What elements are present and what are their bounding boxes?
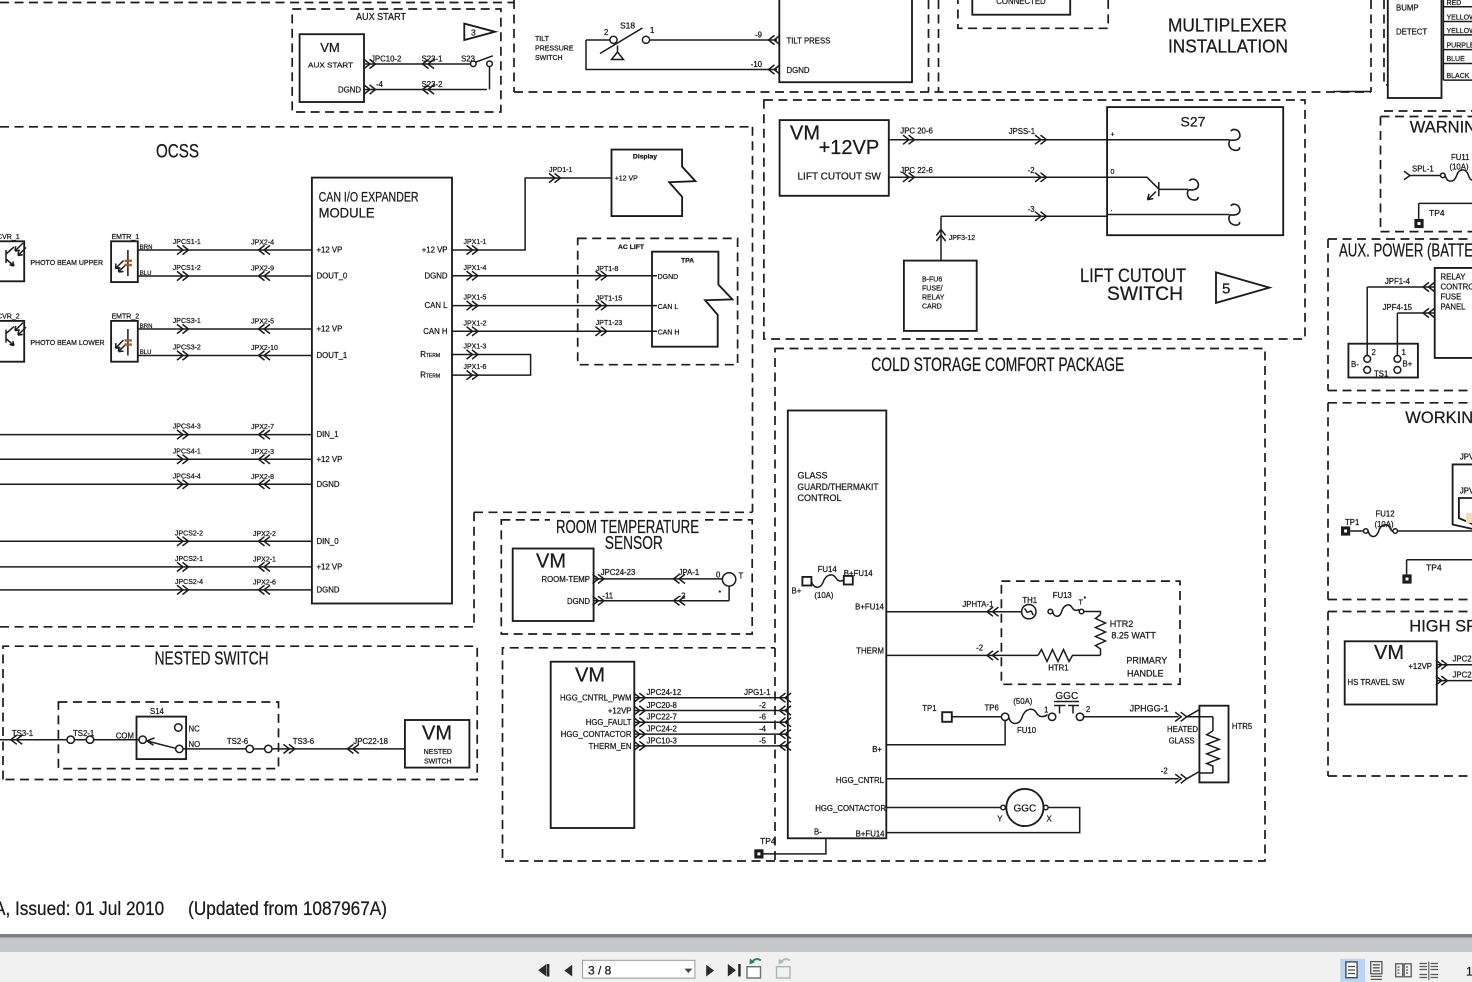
svg-text:JPC24-12: JPC24-12 [647, 688, 682, 697]
svg-text:JPX2-9: JPX2-9 [251, 266, 274, 273]
svg-text:JPCS4-1: JPCS4-1 [173, 448, 201, 455]
svg-text:JPC20-8: JPC20-8 [647, 701, 677, 710]
svg-text:-4: -4 [759, 725, 767, 734]
svg-text:0: 0 [716, 571, 721, 580]
svg-text:WARNING: WARNING [1410, 119, 1472, 137]
svg-text:TS3-1: TS3-1 [12, 729, 33, 738]
svg-text:JPCS4-4: JPCS4-4 [173, 473, 201, 480]
svg-text:+12 VP: +12 VP [317, 455, 343, 464]
svg-text:TP4: TP4 [1429, 208, 1445, 218]
svg-text:HANDLE: HANDLE [1127, 669, 1164, 679]
svg-text:BLU: BLU [140, 271, 152, 277]
svg-text:DGND: DGND [338, 86, 361, 95]
svg-text:JPG1-1: JPG1-1 [744, 688, 770, 697]
svg-text:LIFT CUTOUT SW: LIFT CUTOUT SW [798, 172, 882, 183]
svg-text:SENSOR: SENSOR [605, 533, 663, 553]
svg-text:JPX1-3: JPX1-3 [464, 344, 487, 351]
svg-text:CAN L: CAN L [425, 301, 449, 310]
svg-text:JPT1-8: JPT1-8 [596, 266, 619, 273]
svg-text:CONNECTED: CONNECTED [996, 0, 1046, 6]
svg-text:B+: B+ [792, 587, 802, 596]
svg-text:EMTR_2: EMTR_2 [112, 314, 140, 321]
svg-text:RCVR_1: RCVR_1 [0, 234, 20, 241]
svg-text:JPX1-5: JPX1-5 [464, 295, 487, 302]
svg-text:COM: COM [116, 732, 134, 741]
svg-text:3: 3 [471, 28, 476, 38]
svg-text:MULTIPLEXER: MULTIPLEXER [1168, 16, 1287, 36]
svg-text:HTR1: HTR1 [1048, 664, 1068, 673]
svg-text:0: 0 [1111, 169, 1115, 176]
svg-text:S23-2: S23-2 [422, 80, 443, 89]
svg-text:JPX2-1: JPX2-1 [253, 556, 276, 563]
svg-text:TP4: TP4 [1426, 563, 1442, 573]
svg-text:Y: Y [997, 815, 1003, 824]
svg-text:JPC2: JPC2 [1453, 655, 1472, 664]
svg-text:-2: -2 [679, 591, 686, 600]
svg-text:TP4: TP4 [760, 836, 776, 846]
svg-text:DGND: DGND [787, 66, 810, 75]
svg-text:JPV: JPV [1460, 453, 1472, 462]
svg-text:+12 VP: +12 VP [317, 325, 343, 334]
svg-text:3 / 8: 3 / 8 [588, 964, 612, 978]
svg-text:PURPLE: PURPLE [1447, 43, 1472, 50]
svg-text:JPSS-1: JPSS-1 [1009, 127, 1035, 136]
svg-text:VM: VM [422, 723, 452, 745]
svg-text:JPX2-5: JPX2-5 [251, 319, 274, 326]
svg-text:JPC10-3: JPC10-3 [647, 736, 677, 745]
svg-text:FU14: FU14 [818, 565, 838, 574]
svg-text:JPCS2-1: JPCS2-1 [175, 556, 203, 563]
svg-text:+12 VP: +12 VP [317, 246, 343, 255]
svg-text:JPX2-8: JPX2-8 [251, 474, 274, 481]
svg-text:B+FU14: B+FU14 [856, 830, 885, 839]
svg-text:B+FU14: B+FU14 [855, 603, 884, 612]
svg-text:+12 VP: +12 VP [615, 176, 638, 183]
svg-text:DGND: DGND [425, 272, 448, 281]
svg-text:8.25 WATT: 8.25 WATT [1111, 631, 1156, 641]
svg-text:CAN H: CAN H [658, 330, 680, 337]
svg-text:BUMP: BUMP [1396, 4, 1419, 13]
svg-text:SPL-1: SPL-1 [1412, 164, 1434, 173]
svg-text:JPX2-2: JPX2-2 [253, 531, 276, 538]
svg-text:-4: -4 [376, 80, 384, 89]
svg-text:CONTROL: CONTROL [798, 493, 842, 503]
svg-text:FU10: FU10 [1017, 726, 1037, 735]
svg-text:JPX2-3: JPX2-3 [251, 449, 274, 456]
svg-text:BRN: BRN [140, 245, 153, 251]
svg-text:-2: -2 [759, 701, 766, 710]
svg-text:B+: B+ [1403, 360, 1413, 369]
svg-text:HS TRAVEL SW: HS TRAVEL SW [1348, 678, 1406, 687]
svg-text:JPCS2-2: JPCS2-2 [175, 530, 203, 537]
svg-text:2: 2 [604, 28, 608, 37]
svg-text:FU13: FU13 [1053, 591, 1072, 600]
svg-text:RCVR_2: RCVR_2 [0, 314, 20, 321]
svg-text:JPF3-12: JPF3-12 [949, 235, 976, 242]
svg-text:WORKING: WORKING [1405, 409, 1472, 427]
svg-text:1: 1 [650, 26, 654, 35]
svg-text:JPT1-15: JPT1-15 [596, 296, 623, 303]
svg-text:OCSS: OCSS [156, 142, 199, 163]
svg-text:BLACK: BLACK [1447, 73, 1470, 80]
svg-text:-2: -2 [1161, 767, 1168, 776]
svg-text:+12VP: +12VP [1408, 662, 1432, 671]
svg-text:BRN: BRN [140, 324, 153, 330]
svg-text:T: T [739, 572, 744, 581]
svg-text:TILT: TILT [535, 36, 550, 43]
svg-text:HGG_FAULT: HGG_FAULT [586, 718, 632, 727]
svg-text:CONTROL: CONTROL [1441, 283, 1472, 292]
svg-text:VM: VM [790, 123, 820, 145]
svg-text:PRESSURE: PRESSURE [535, 46, 574, 53]
svg-text:1: 1 [1402, 348, 1406, 357]
svg-text:AUX START: AUX START [308, 61, 354, 70]
svg-text:THERM_EN: THERM_EN [589, 742, 632, 751]
svg-text:-2: -2 [1028, 166, 1035, 175]
svg-text:HTR5: HTR5 [1232, 722, 1253, 731]
svg-text:JPCS3-1: JPCS3-1 [173, 318, 201, 325]
svg-text:B-: B- [814, 828, 822, 837]
svg-text:DGND: DGND [317, 586, 340, 595]
svg-text:HGG_CNTRL_PWM: HGG_CNTRL_PWM [560, 694, 631, 703]
svg-text:JPCS1-2: JPCS1-2 [173, 265, 201, 272]
svg-text:JPC22-18: JPC22-18 [353, 737, 388, 746]
svg-text:RED: RED [1447, 0, 1462, 7]
svg-text:2: 2 [1086, 705, 1090, 714]
svg-text:SWITCH: SWITCH [535, 55, 563, 62]
svg-text:FUSE: FUSE [1441, 293, 1462, 302]
svg-text:TILT PRESS: TILT PRESS [787, 37, 831, 46]
svg-text:JPHGG-1: JPHGG-1 [1130, 704, 1169, 714]
svg-text:+: + [1111, 132, 1115, 139]
svg-text:VM: VM [575, 665, 605, 687]
svg-text:GUARD/THERMAKIT: GUARD/THERMAKIT [798, 482, 879, 492]
svg-text:FU11: FU11 [1451, 153, 1470, 162]
svg-text:AUX. POWER (BATTE: AUX. POWER (BATTE [1339, 241, 1472, 261]
svg-text:ROOM-TEMP: ROOM-TEMP [541, 575, 590, 584]
svg-text:JPC22-7: JPC22-7 [647, 713, 677, 722]
svg-text:DGND: DGND [317, 480, 340, 489]
svg-text:-5: -5 [759, 736, 767, 745]
svg-text:JPA-1: JPA-1 [679, 568, 700, 577]
svg-text:VM: VM [1374, 642, 1404, 664]
svg-text:DIN_1: DIN_1 [317, 430, 339, 439]
svg-text:JPHTA-1: JPHTA-1 [962, 600, 993, 609]
svg-text:JPCS4-3: JPCS4-3 [173, 424, 201, 431]
svg-text:A, Issued: 01 Jul 2010 (Up: A, Issued: 01 Jul 2010 (Updated from 108… [0, 899, 387, 920]
svg-text:NC: NC [189, 725, 201, 734]
svg-text:HGG_CONTACTOR: HGG_CONTACTOR [815, 804, 886, 813]
svg-text:-10: -10 [751, 60, 763, 69]
svg-text:HEATED: HEATED [1167, 725, 1198, 734]
svg-text:.: . [1111, 206, 1113, 213]
svg-text:JPX1-2: JPX1-2 [464, 320, 487, 327]
svg-text:DGND: DGND [658, 274, 679, 281]
svg-text:PRIMARY: PRIMARY [1126, 656, 1167, 666]
svg-text:S27: S27 [1181, 114, 1206, 130]
svg-text:NESTED: NESTED [424, 749, 452, 756]
svg-text:GGC: GGC [1014, 804, 1037, 815]
svg-text:NESTED SWITCH: NESTED SWITCH [155, 649, 269, 669]
svg-text:-9: -9 [755, 31, 762, 40]
svg-text:JPC 20-6: JPC 20-6 [900, 127, 933, 136]
svg-text:-2: -2 [976, 644, 983, 653]
svg-text:JPX2-7: JPX2-7 [251, 424, 274, 431]
svg-text:GGC: GGC [1055, 691, 1078, 702]
svg-text:JPF4-15: JPF4-15 [1383, 303, 1413, 312]
svg-text:B+: B+ [872, 745, 882, 754]
svg-text:PHOTO BEAM UPPER: PHOTO BEAM UPPER [30, 260, 103, 267]
svg-text:+12VP: +12VP [819, 137, 880, 159]
svg-text:DETECT: DETECT [1396, 28, 1427, 37]
svg-text:TP1: TP1 [922, 704, 936, 713]
svg-text:TS2-1: TS2-1 [73, 729, 94, 738]
svg-text:JPV: JPV [1460, 487, 1472, 496]
svg-text:S23-1: S23-1 [422, 55, 443, 64]
svg-text:CAN I/O EXPANDER: CAN I/O EXPANDER [319, 189, 419, 205]
svg-text:VM: VM [320, 40, 340, 55]
svg-text:-6: -6 [759, 713, 766, 722]
svg-text:S23: S23 [461, 55, 475, 64]
svg-text:GLASS: GLASS [798, 471, 828, 481]
svg-text:-3: -3 [1028, 205, 1035, 214]
svg-text:(50A): (50A) [1013, 697, 1032, 706]
svg-text:JPCS3-2: JPCS3-2 [173, 345, 201, 352]
svg-text:YELLOW: YELLOW [1447, 15, 1472, 22]
svg-text:VM: VM [536, 551, 566, 573]
svg-text:2: 2 [1372, 348, 1376, 357]
svg-text:GLASS: GLASS [1169, 737, 1195, 746]
svg-text:JPX2-6: JPX2-6 [253, 579, 276, 586]
svg-text:CAN H: CAN H [423, 327, 447, 336]
svg-text:B-: B- [1351, 360, 1359, 369]
svg-text:BLU: BLU [140, 350, 152, 356]
svg-text:HGG_CNTRL: HGG_CNTRL [836, 776, 885, 785]
svg-text:JPX2-10: JPX2-10 [251, 345, 278, 352]
svg-text:JPX1-4: JPX1-4 [464, 265, 487, 272]
svg-text:S14: S14 [150, 707, 165, 716]
svg-text:5: 5 [1222, 281, 1230, 298]
svg-text:Display: Display [633, 154, 657, 161]
svg-text:-11: -11 [602, 591, 613, 600]
svg-text:+12VP: +12VP [608, 707, 632, 716]
svg-text:(10A): (10A) [1450, 163, 1469, 172]
svg-text:DGND: DGND [567, 597, 590, 606]
svg-text:JPC24-2: JPC24-2 [647, 725, 677, 734]
svg-text:HTR2: HTR2 [1110, 619, 1134, 629]
svg-text:(10A): (10A) [814, 591, 833, 600]
svg-text:AC LIFT: AC LIFT [618, 244, 645, 251]
svg-text:TS3-6: TS3-6 [293, 737, 314, 746]
svg-text:JPF1-4: JPF1-4 [1385, 277, 1411, 286]
svg-text:SWITCH: SWITCH [424, 759, 452, 766]
svg-text:HIGH SPE: HIGH SPE [1409, 618, 1472, 636]
svg-text:TS2-6: TS2-6 [227, 737, 248, 746]
svg-text:FUSE/: FUSE/ [922, 286, 943, 293]
svg-text:JPT1-23: JPT1-23 [596, 320, 623, 327]
svg-text:B-FU6: B-FU6 [922, 277, 942, 284]
svg-text:COLD STORAGE COMFORT PACKAGE: COLD STORAGE COMFORT PACKAGE [871, 355, 1124, 376]
svg-text:EMTR_1: EMTR_1 [112, 234, 140, 241]
svg-text:JPX1-6: JPX1-6 [464, 364, 487, 371]
svg-text:+12 VP: +12 VP [422, 246, 448, 255]
svg-text:S18: S18 [620, 21, 635, 31]
svg-text:INSTALLATION: INSTALLATION [1168, 37, 1288, 57]
svg-text:DOUT_1: DOUT_1 [317, 351, 348, 360]
svg-text:PANEL: PANEL [1441, 303, 1467, 312]
svg-text:JPC10-2: JPC10-2 [371, 55, 401, 64]
svg-text:TP6: TP6 [985, 704, 999, 713]
svg-text:1: 1 [1466, 965, 1472, 979]
svg-text:MODULE: MODULE [319, 205, 375, 221]
svg-text:TP1: TP1 [1345, 518, 1359, 527]
svg-text:1: 1 [1044, 706, 1048, 715]
svg-text:CAN L: CAN L [658, 304, 679, 311]
svg-text:JPC 22-6: JPC 22-6 [900, 166, 933, 175]
svg-text:SWITCH: SWITCH [1107, 284, 1183, 305]
svg-text:JPC2: JPC2 [1453, 671, 1472, 680]
svg-text:TH1: TH1 [1022, 596, 1037, 605]
svg-text:DOUT_0: DOUT_0 [317, 272, 348, 281]
svg-text:DIN_0: DIN_0 [317, 537, 340, 546]
svg-text:THERM: THERM [856, 647, 884, 656]
svg-text:JPCS1-1: JPCS1-1 [173, 239, 201, 246]
svg-text:JPD1-1: JPD1-1 [549, 167, 572, 174]
svg-text:X: X [1047, 815, 1053, 824]
svg-text:JPC24-23: JPC24-23 [601, 568, 636, 577]
svg-text:CARD: CARD [922, 304, 942, 311]
svg-text:JPX2-4: JPX2-4 [251, 240, 274, 247]
svg-text:T: T [1079, 600, 1084, 607]
svg-text:TS1: TS1 [1374, 370, 1388, 379]
svg-text:JPCS2-4: JPCS2-4 [175, 579, 203, 586]
svg-text:RELAY: RELAY [1441, 273, 1467, 282]
svg-text:HGG_CONTACTOR: HGG_CONTACTOR [561, 730, 632, 739]
svg-text:NO: NO [189, 740, 201, 749]
svg-text:PHOTO BEAM LOWER: PHOTO BEAM LOWER [30, 340, 104, 347]
svg-text:RELAY: RELAY [922, 295, 945, 302]
svg-text:YELLOW: YELLOW [1447, 28, 1472, 35]
svg-text:AUX START: AUX START [356, 12, 406, 23]
svg-text:+12 VP: +12 VP [317, 563, 343, 572]
svg-text:FU12: FU12 [1376, 510, 1395, 519]
svg-text:JPX1-1: JPX1-1 [464, 239, 487, 246]
svg-text:TPA: TPA [681, 258, 694, 265]
svg-text:BLUE: BLUE [1447, 56, 1466, 63]
